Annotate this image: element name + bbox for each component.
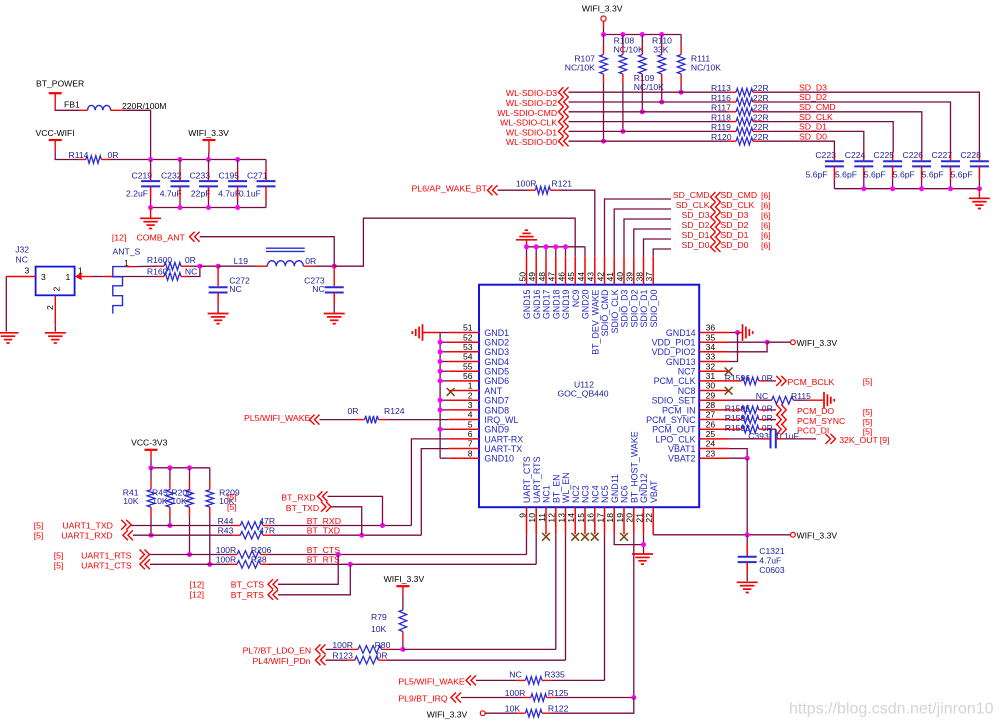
svg-text:FB1: FB1 — [64, 100, 80, 110]
svg-text:C0603: C0603 — [759, 565, 785, 575]
svg-text:NC9: NC9 — [571, 289, 581, 307]
wire chip left GND bus — [439, 333, 441, 459]
svg-text:GND8: GND8 — [484, 405, 509, 415]
wire cap bus top — [110, 159, 266, 161]
svg-text:220R/100M: 220R/100M — [122, 101, 166, 111]
svg-text:BT_RXD: BT_RXD — [307, 516, 341, 526]
svg-text:ANT: ANT — [484, 386, 502, 396]
svg-text:10K: 10K — [371, 624, 387, 634]
svg-text:WL-SDIO-D0: WL-SDIO-D0 — [506, 137, 557, 147]
svg-text:100R: 100R — [516, 178, 537, 188]
ground (chip left GND pins) — [422, 324, 424, 341]
svg-text:GND4: GND4 — [484, 357, 509, 367]
svg-text:GND14: GND14 — [666, 328, 696, 338]
svg-text:NC: NC — [185, 266, 197, 276]
svg-text:53: 53 — [463, 342, 473, 352]
svg-text:0R: 0R — [185, 255, 196, 265]
svg-text:UART1_RXD: UART1_RXD — [61, 531, 112, 541]
svg-text:R124: R124 — [384, 406, 405, 416]
svg-text:NC/10K: NC/10K — [565, 63, 595, 73]
svg-text:35: 35 — [706, 332, 716, 342]
svg-text:BT_EN: BT_EN — [551, 474, 561, 503]
wire R125 to pin 20 — [555, 697, 634, 699]
svg-text:GND16: GND16 — [532, 289, 542, 319]
wire SD_CLK to cap — [761, 122, 893, 153]
wire SD_D1 to cap — [761, 131, 864, 152]
svg-text:[5]: [5] — [863, 376, 873, 386]
svg-text:5.6pF: 5.6pF — [951, 170, 973, 180]
wire pin 20 BT_HOST_WAKE down — [633, 534, 635, 697]
svg-text:0R: 0R — [305, 256, 316, 266]
svg-text:18: 18 — [605, 513, 615, 523]
svg-text:5.6pF: 5.6pF — [864, 170, 886, 180]
svg-text:38: 38 — [634, 272, 644, 282]
svg-text:UART1_TXD: UART1_TXD — [62, 521, 113, 531]
svg-text:VDD_PIO1: VDD_PIO1 — [652, 338, 696, 348]
wire 5.6pF cap bus — [834, 188, 979, 190]
svg-text:100R: 100R — [216, 555, 237, 565]
pin 43 BT_DEV_WAKE (top) — [594, 256, 596, 284]
wire chip top GND row — [527, 246, 586, 248]
wire COMB_ANT — [200, 237, 335, 267]
svg-text:SD_CMD: SD_CMD — [721, 190, 758, 200]
net label PCM_SYNC [5] — [781, 414, 786, 425]
svg-text:BT_TXD: BT_TXD — [307, 526, 340, 536]
svg-text:9: 9 — [517, 513, 527, 518]
svg-text:C233: C233 — [189, 171, 210, 181]
pin 30 NC8 (right) — [699, 390, 729, 392]
node R1600/R1601 — [197, 264, 202, 269]
pin 54 GND4 (left) — [449, 361, 479, 363]
svg-text:13: 13 — [556, 513, 566, 523]
svg-text:30: 30 — [706, 381, 716, 391]
svg-text:SD_D3: SD_D3 — [799, 82, 827, 92]
wire J32 pin3 to ground — [5, 277, 7, 332]
wire R123 to pin 13 WL_EN — [387, 659, 566, 661]
svg-text:NC: NC — [756, 391, 768, 401]
svg-text:10K: 10K — [505, 704, 521, 714]
pin 23 VBAT2 (right) — [699, 457, 729, 459]
svg-text:12: 12 — [547, 513, 557, 523]
pin 27 PCM_SYNC (right) — [699, 419, 729, 421]
svg-text:L19: L19 — [234, 256, 249, 266]
svg-text:NC/10K: NC/10K — [691, 63, 721, 73]
svg-text:4.7uF: 4.7uF — [759, 556, 781, 566]
svg-text:VDD_PIO2: VDD_PIO2 — [652, 347, 696, 357]
wire TXD to chip UART-RX — [272, 525, 412, 527]
svg-text:21: 21 — [634, 513, 644, 523]
wire pin 35 VDD_PIO1 to WIFI_3.3V — [729, 341, 767, 343]
svg-text:16: 16 — [586, 513, 596, 523]
svg-text:SDIO_D1: SDIO_D1 — [639, 289, 649, 327]
resistor R108 NC/10K — [622, 35, 624, 46]
svg-text:4.7uF: 4.7uF — [160, 189, 182, 199]
pin 28 PCM_IN (right) — [699, 409, 729, 411]
pin 21 GND12 (bottom) — [643, 507, 645, 534]
ground (R115) — [823, 392, 825, 409]
svg-text:[6]: [6] — [761, 201, 771, 211]
svg-text:J32: J32 — [15, 245, 29, 255]
svg-text:SDIO_D3: SDIO_D3 — [620, 289, 630, 327]
pin 2 GND7 (left) — [449, 399, 479, 401]
ground (5.6pF bank) — [978, 189, 980, 198]
wire WL-SDIO-CMD — [569, 111, 729, 113]
svg-text:PL9/BT_IRQ: PL9/BT_IRQ — [398, 694, 447, 704]
svg-text:[6]: [6] — [761, 211, 771, 221]
svg-text:R44: R44 — [218, 516, 234, 526]
svg-text:WIFI_3.3V: WIFI_3.3V — [797, 338, 838, 348]
pin 24 VBAT1 (right) — [699, 448, 729, 450]
svg-text:5.6pF: 5.6pF — [922, 170, 944, 180]
resistor R45 10K — [169, 468, 171, 481]
wire J32 pin2 to ground — [54, 325, 56, 331]
pin 5 GND9 (left) — [449, 428, 479, 430]
svg-text:10K: 10K — [123, 496, 139, 506]
wire WL-SDIO-D3 — [569, 91, 729, 93]
wire R124 to pin 4 IRQ_WL — [387, 419, 449, 421]
wire R80 to pin 12 BT_EN — [403, 648, 556, 650]
svg-text:3: 3 — [468, 400, 473, 410]
pin 51 GND1 (left) — [449, 332, 479, 334]
svg-text:WL-SDIO-D1: WL-SDIO-D1 — [506, 127, 557, 137]
svg-text:BT_CTS: BT_CTS — [231, 580, 265, 590]
svg-text:50: 50 — [517, 272, 527, 282]
svg-text:[12]: [12] — [112, 232, 127, 242]
capacitor C226 5.6pF — [921, 153, 923, 161]
pin 26 PCM_OUT (right) — [699, 428, 729, 430]
svg-text:SD_CLK: SD_CLK — [721, 200, 755, 210]
svg-text:SD_D2: SD_D2 — [799, 92, 827, 102]
no-connect X pin 1 ANT — [447, 388, 455, 396]
svg-text:SD_CLK: SD_CLK — [676, 200, 710, 210]
pin 47 GND18 (top) — [555, 256, 557, 284]
svg-text:23: 23 — [706, 448, 716, 458]
resistor R109 NC/10K — [641, 35, 643, 46]
svg-text:SD_CLK: SD_CLK — [799, 112, 833, 122]
pin 6 UART-RX (left) — [449, 438, 479, 440]
svg-text:31: 31 — [706, 371, 716, 381]
wire SD_D1 to chip — [644, 239, 672, 256]
svg-text:5.6pF: 5.6pF — [806, 170, 828, 180]
svg-text:[5]: [5] — [34, 531, 44, 541]
svg-text:LPO_CLK: LPO_CLK — [656, 434, 696, 444]
wire pin 17 NC5 down — [604, 534, 606, 680]
wire pin 13 WL_EN down — [565, 534, 567, 660]
junction dots 5.6pF bus — [861, 186, 866, 191]
svg-text:44: 44 — [576, 272, 586, 282]
svg-text:SD_D2: SD_D2 — [721, 220, 749, 230]
svg-text:VBAT2: VBAT2 — [668, 454, 696, 464]
svg-text:NC/10K: NC/10K — [614, 44, 644, 54]
svg-text:BT_HOST_WAKE: BT_HOST_WAKE — [629, 431, 639, 503]
svg-text:45: 45 — [566, 272, 576, 282]
svg-text:UART-TX: UART-TX — [484, 444, 522, 454]
pin 12 BT_EN (bottom) — [555, 507, 557, 534]
svg-text:BT_RTS: BT_RTS — [231, 590, 264, 600]
svg-text:5.6pF: 5.6pF — [893, 170, 915, 180]
svg-text:C224: C224 — [845, 150, 866, 160]
pin 55 GND5 (left) — [449, 370, 479, 372]
resistor R209 10K — [209, 468, 211, 481]
svg-text:NC7: NC7 — [678, 367, 696, 377]
wire CTS to chip pin 10 — [269, 563, 537, 565]
pin 18 GND11 (bottom) — [613, 507, 615, 534]
pin 7 UART-TX (left) — [449, 448, 479, 450]
svg-text:VBAT: VBAT — [649, 480, 659, 503]
ground (chip top GND pins) — [525, 229, 528, 231]
svg-text:100R: 100R — [332, 640, 353, 650]
svg-text:NC: NC — [509, 670, 521, 680]
pin 35 VDD_PIO1 (right) — [699, 341, 729, 343]
svg-text:SD_D3: SD_D3 — [721, 210, 749, 220]
svg-text:25: 25 — [706, 429, 716, 439]
svg-text:26: 26 — [706, 419, 716, 429]
svg-text:GND17: GND17 — [542, 289, 552, 319]
svg-text:PL6/AP_WAKE_BT: PL6/AP_WAKE_BT — [412, 183, 488, 193]
wire R121 to chip pin 43 — [558, 190, 595, 256]
pin 45 NC9 (top) — [574, 256, 576, 284]
svg-text:BT_CTS: BT_CTS — [307, 545, 341, 555]
svg-text:C223: C223 — [815, 150, 836, 160]
pin 22 VBAT (bottom) — [652, 507, 654, 534]
wire pin 21 GND12 to ground — [643, 534, 645, 553]
net label PCM_DO [5] — [781, 404, 786, 415]
wire L19 to node C273 — [315, 265, 334, 267]
svg-text:40: 40 — [615, 272, 625, 282]
wire antenna node to chip pin 45 — [334, 218, 575, 266]
wire BT_RXD fly — [328, 496, 383, 525]
pin 46 GND19 (top) — [565, 256, 567, 284]
pin 1 ANT (left) — [449, 390, 479, 392]
svg-text:52: 52 — [463, 332, 473, 342]
pin 16 NC4 (bottom) — [594, 507, 596, 534]
svg-text:WIFI_3.3V: WIFI_3.3V — [384, 574, 425, 584]
svg-text:0R: 0R — [762, 404, 773, 414]
capacitor C233 22pF — [208, 160, 210, 170]
svg-text:4: 4 — [468, 410, 473, 420]
svg-text:C219: C219 — [132, 171, 153, 181]
svg-text:10: 10 — [527, 513, 537, 523]
svg-text:GND1: GND1 — [484, 328, 509, 338]
svg-text:6: 6 — [468, 429, 473, 439]
svg-text:14: 14 — [566, 513, 576, 523]
svg-text:11: 11 — [537, 513, 547, 522]
wire WL-SDIO-D1 — [569, 130, 729, 132]
ground (J32 pin3) — [0, 332, 19, 334]
svg-text:PCO_DI: PCO_DI — [797, 426, 829, 436]
svg-text:R335: R335 — [544, 670, 565, 680]
svg-text:22R: 22R — [753, 103, 769, 113]
svg-text:42: 42 — [595, 272, 605, 282]
node C272 — [216, 264, 221, 269]
svg-text:PCM_SYNC: PCM_SYNC — [646, 415, 696, 425]
wire pin 9 UART_CTS to RTS line — [526, 534, 528, 554]
svg-text:R206: R206 — [251, 545, 272, 555]
pin 39 SDIO_D2 (top) — [633, 256, 635, 284]
pin 41 SDIO_CLK (top) — [613, 256, 615, 284]
svg-text:GND9: GND9 — [484, 425, 509, 435]
pin 44 GND20 (top) — [584, 256, 586, 284]
wire BT_RTS fly — [278, 564, 350, 595]
capacitor C228 5.6pF — [978, 153, 980, 161]
wire SD_D3 to chip — [624, 219, 671, 256]
wire pullup bus — [604, 34, 682, 36]
svg-text:UART_RTS: UART_RTS — [532, 456, 542, 503]
svg-text:34: 34 — [706, 342, 716, 352]
no-connect X bottom pins — [542, 533, 550, 541]
svg-text:10K: 10K — [152, 496, 168, 506]
wire SD_D2 to cap — [761, 102, 951, 153]
svg-text:PCM_DO: PCM_DO — [797, 406, 834, 416]
svg-text:C226: C226 — [903, 150, 924, 160]
svg-text:SDIO_CMD: SDIO_CMD — [600, 290, 610, 337]
svg-text:VCC-WIFI: VCC-WIFI — [36, 128, 75, 138]
svg-text:2.2uF: 2.2uF — [126, 189, 148, 199]
wire pin 12 BT_EN down — [555, 534, 557, 649]
svg-text:NC5: NC5 — [600, 485, 610, 503]
svg-text:IRQ_WL: IRQ_WL — [484, 415, 518, 425]
pin 14 NC2 (bottom) — [574, 507, 576, 534]
pin 20 BT_HOST_WAKE (bottom) — [633, 507, 635, 534]
wire R335 to pin 17 — [550, 679, 604, 681]
svg-text:NC: NC — [16, 255, 28, 265]
resistor R110 33K — [661, 35, 663, 46]
net label PCO_DI [5] — [781, 424, 786, 435]
svg-text:PCM_CLK: PCM_CLK — [654, 376, 696, 386]
svg-text:32: 32 — [706, 361, 716, 371]
pin 52 GND2 (left) — [449, 341, 479, 343]
wire GND row to pin 44 — [584, 247, 586, 256]
svg-text:BT_RXD: BT_RXD — [281, 492, 315, 502]
wire GND14 to GND13 — [729, 333, 738, 362]
svg-text:[6]: [6] — [761, 221, 771, 231]
wire WL-SDIO-D2 — [569, 101, 729, 103]
svg-text:2: 2 — [52, 287, 62, 292]
pin 19 NC6 (bottom) — [623, 507, 625, 534]
wire VBAT to rail — [746, 458, 748, 535]
svg-text:C228: C228 — [960, 150, 981, 160]
wire BT_POWER to FB1 — [55, 109, 78, 111]
wire BT_TXD fly — [331, 507, 362, 535]
svg-text:UART-RX: UART-RX — [484, 434, 523, 444]
svg-text:[5]: [5] — [863, 417, 873, 427]
pin 48 GND17 (top) — [545, 256, 547, 284]
svg-text:C195: C195 — [219, 171, 240, 181]
svg-text:UART1_CTS: UART1_CTS — [81, 561, 132, 571]
svg-text:WL-SDIO-D2: WL-SDIO-D2 — [506, 98, 557, 108]
svg-text:56: 56 — [463, 371, 473, 381]
capacitor C224 5.6pF — [863, 153, 865, 161]
svg-text:R121: R121 — [552, 178, 573, 188]
svg-text:SD_D1: SD_D1 — [721, 230, 749, 240]
svg-text:22pF: 22pF — [191, 189, 211, 199]
svg-text:SDIO_D2: SDIO_D2 — [629, 289, 639, 327]
capacitor C227 5.6pF — [950, 153, 952, 161]
svg-text:GND5: GND5 — [484, 367, 509, 377]
pin 29 SDIO_SET (right) — [699, 399, 729, 401]
capacitor C272 NC — [217, 266, 219, 286]
svg-text:SD_D1: SD_D1 — [799, 122, 827, 132]
svg-text:51: 51 — [463, 323, 473, 333]
svg-text:0R: 0R — [762, 373, 773, 383]
svg-text:SD_CMD: SD_CMD — [673, 190, 710, 200]
svg-text:28: 28 — [706, 400, 716, 410]
svg-text:47: 47 — [547, 272, 557, 282]
wire J32 pin1 to R1601/antenna — [92, 276, 103, 278]
no-connect X pin 32 NC7 — [725, 368, 733, 376]
svg-text:NC3: NC3 — [581, 485, 591, 503]
svg-text:SD_D1: SD_D1 — [681, 230, 709, 240]
svg-text:SD_D2: SD_D2 — [681, 220, 709, 230]
svg-text:GND2: GND2 — [484, 338, 509, 348]
pin 17 NC5 (bottom) — [604, 507, 606, 534]
svg-text:5.6pF: 5.6pF — [835, 170, 857, 180]
net label PCM_BCLK [5] — [781, 376, 786, 386]
svg-text:C271: C271 — [247, 171, 268, 181]
svg-text:GND15: GND15 — [522, 289, 532, 319]
resistor R111 NC/10K — [680, 35, 682, 46]
svg-text:SD_D3: SD_D3 — [681, 210, 709, 220]
wire R122 to pin 20 riser — [550, 698, 634, 714]
svg-text:BT_DEV_WAKE: BT_DEV_WAKE — [590, 289, 600, 354]
svg-text:33: 33 — [706, 352, 716, 362]
wire pin 18 GND11 to ground — [614, 534, 643, 544]
svg-text:[5]: [5] — [863, 407, 873, 417]
wire SD_D2 to chip — [634, 229, 671, 256]
svg-text:UART_CTS: UART_CTS — [522, 456, 532, 503]
svg-text:C232: C232 — [161, 171, 182, 181]
pin 3 GND8 (left) — [449, 409, 479, 411]
svg-text:GND7: GND7 — [484, 396, 509, 406]
svg-text:GND6: GND6 — [484, 376, 509, 386]
svg-text:GND13: GND13 — [666, 357, 696, 367]
wire VCC-WIFI to R114 — [55, 150, 78, 159]
svg-text:WIFI_3.3V: WIFI_3.3V — [797, 531, 838, 541]
svg-text:7: 7 — [468, 439, 473, 449]
svg-text:VCC-3V3: VCC-3V3 — [131, 437, 168, 447]
net label 32K_OUT [9] — [831, 434, 836, 444]
svg-text:https://blog.csdn.net/jinron10: https://blog.csdn.net/jinron10 — [789, 701, 994, 718]
pin 9 UART_CTS (bottom) — [526, 507, 528, 534]
pin 49 GND16 (top) — [535, 256, 537, 284]
svg-text:15: 15 — [576, 513, 586, 523]
svg-text:0.1uF: 0.1uF — [239, 189, 261, 199]
svg-text:29: 29 — [706, 390, 716, 400]
svg-text:36: 36 — [706, 323, 716, 333]
svg-text:R80: R80 — [375, 640, 391, 650]
pin 40 SDIO_D3 (top) — [623, 256, 625, 284]
svg-text:22: 22 — [644, 513, 654, 523]
junction dots cap bus bottom — [148, 205, 153, 210]
svg-text:[5]: [5] — [227, 502, 237, 512]
wire node to C272 node — [200, 265, 218, 267]
svg-text:GND12: GND12 — [639, 473, 649, 503]
wire VDD_PIO1 to VDD_PIO2 — [729, 342, 767, 352]
wire C272 node to L19 — [218, 265, 255, 267]
svg-text:[6]: [6] — [761, 241, 771, 251]
capacitor C223 5.6pF — [833, 153, 835, 161]
svg-text:[9]: [9] — [880, 435, 890, 445]
svg-text:10K: 10K — [171, 496, 187, 506]
wire cap bus bottom — [151, 207, 266, 209]
resistor R107 NC/10K — [603, 35, 605, 46]
svg-text:PL5/WIFI_WAKE: PL5/WIFI_WAKE — [244, 413, 311, 423]
svg-text:24: 24 — [706, 439, 716, 449]
svg-text:GND20: GND20 — [581, 289, 591, 319]
svg-text:ANT_S: ANT_S — [113, 247, 141, 257]
wire FB1 to cap bus — [124, 110, 151, 159]
svg-text:32K_OUT: 32K_OUT — [839, 435, 878, 445]
